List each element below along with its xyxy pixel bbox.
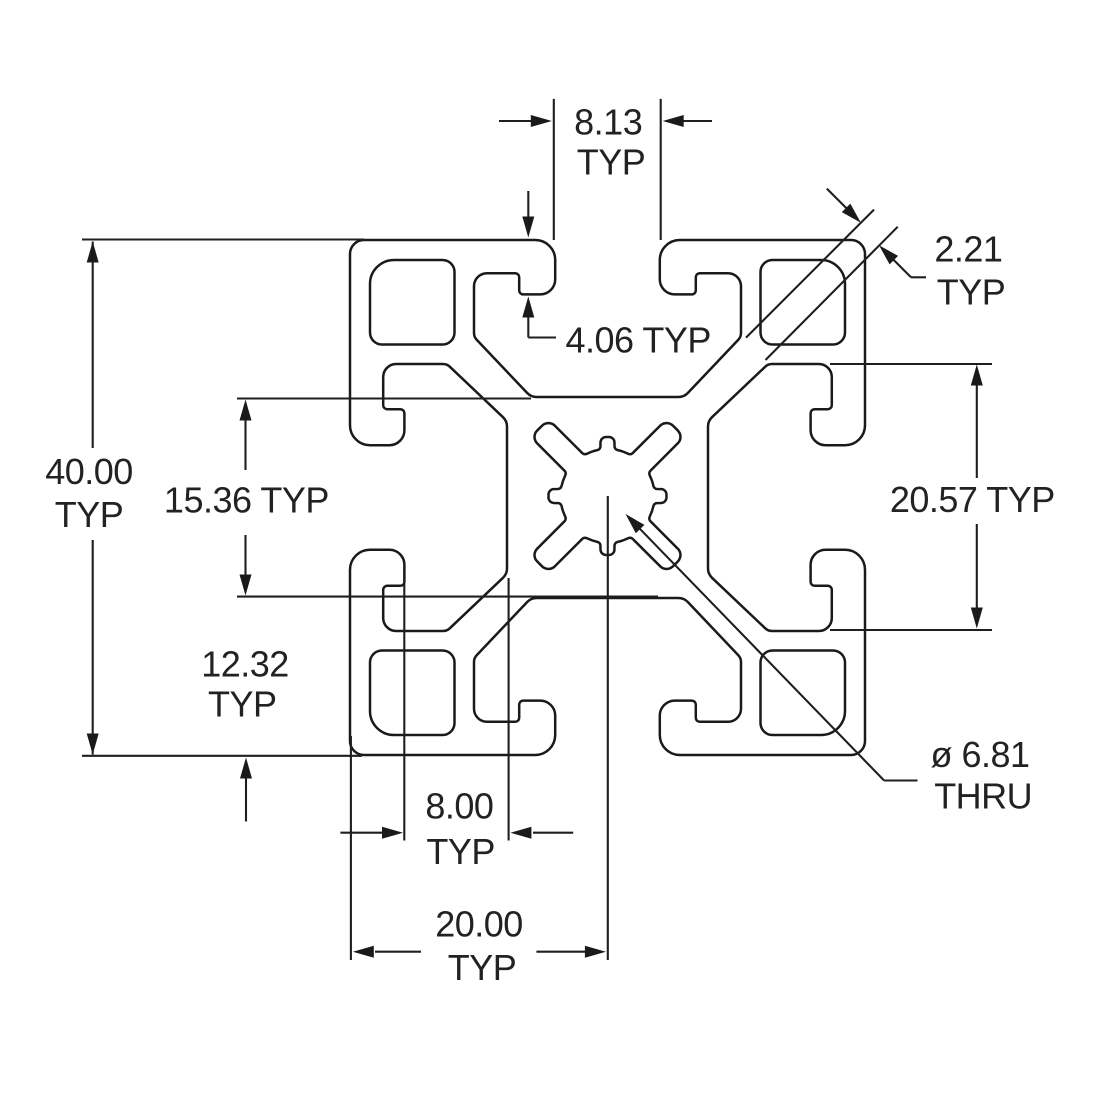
center splined screw-boss hole [535,423,681,569]
svg-text:TYP: TYP [426,831,495,872]
svg-text:20.57 TYP: 20.57 TYP [890,479,1055,520]
dim 2.21 TYP upper arrow [827,189,848,210]
bottom-right corner square cavity [761,651,846,736]
dim 8.13 TYP extension line left [553,99,555,240]
top-left corner square cavity [370,260,455,345]
svg-text:TYP: TYP [55,494,124,535]
svg-text:TYP: TYP [448,947,517,988]
svg-text:40.00: 40.00 [45,451,133,492]
dim 15.36 TYP extension line top [237,397,531,399]
dim 20.00 TYP right arrow [536,951,586,953]
dim 8.13 TYP left arrow [499,120,533,122]
dim 2.21 TYP witness line outer [746,210,874,338]
svg-text:4.06 TYP: 4.06 TYP [566,320,711,361]
top-right corner square cavity [761,260,846,345]
centerline from hole center [607,496,609,960]
dim 40.00 TYP vertical line with arrows [92,242,94,449]
svg-text:2.21: 2.21 [934,229,1002,270]
dim 8.00 TYP extension line right [508,578,510,841]
svg-text:TYP: TYP [937,272,1006,313]
svg-text:TYP: TYP [577,142,646,183]
dim 20.57 TYP up arrow [976,379,978,478]
svg-text:8.00: 8.00 [425,786,493,827]
leader line for center hole [884,779,917,781]
dim 15.36 TYP down arrow [244,535,246,585]
svg-text:THRU: THRU [934,776,1032,817]
extrusion profile outer outline with four T-slots [350,240,865,755]
dim 8.00 TYP left arrow [340,832,382,834]
dim 4.06 TYP up arrow at lip bottom with elbow leader [527,307,529,338]
dim 20.57 TYP extension line bottom [830,629,992,631]
svg-text:20.00: 20.00 [435,904,523,945]
dim 40.00 TYP extension line bottom [82,755,362,757]
dim 20.00 TYP extension line left [350,736,352,960]
dim 20.57 TYP extension line top [830,363,992,365]
dim 8.13 TYP extension line right [660,99,662,240]
dim 20.57 TYP down arrow [976,524,978,614]
dim 8.00 TYP right arrow [533,832,573,834]
dim 4.06 TYP down arrow at top face [527,191,529,228]
dim 20.00 TYP left arrow [375,951,421,953]
bottom-left corner square cavity [370,651,455,736]
dim 15.36 TYP up arrow [244,414,246,470]
svg-text:ø 6.81: ø 6.81 [931,734,1030,775]
dim 12.32 TYP up arrow below bottom face line [245,775,247,822]
dim 15.36 TYP extension line bottom [237,596,658,598]
svg-text:12.32: 12.32 [201,644,289,685]
dim 8.13 TYP right arrow [683,120,712,122]
dim 2.21 TYP witness line inner [766,227,898,360]
svg-text:15.36 TYP: 15.36 TYP [164,480,329,521]
dim 2.21 TYP lower arrow with leader [911,276,926,278]
dim 8.00 TYP extension line left [403,570,405,841]
dim 40.00 TYP extension line top [82,238,364,240]
svg-text:TYP: TYP [208,684,277,725]
svg-text:8.13: 8.13 [574,102,642,143]
